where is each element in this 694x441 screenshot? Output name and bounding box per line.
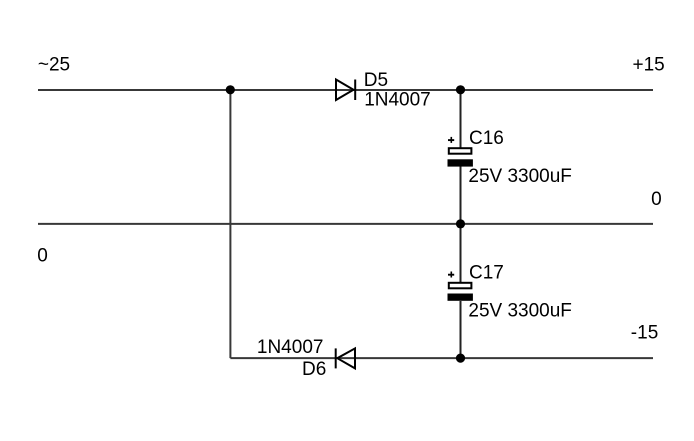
capacitor C16 bbox=[448, 137, 473, 167]
node junction: 0V rail bbox=[456, 219, 465, 228]
capacitor C17 bbox=[448, 272, 473, 301]
svg-text:C17: C17 bbox=[469, 263, 504, 284]
svg-text:C16: C16 bbox=[469, 128, 504, 149]
wire right vertical: top rail to C16 bbox=[460, 90, 462, 148]
diode D5 bbox=[336, 80, 355, 101]
wire bottom rail bbox=[230, 357, 653, 359]
wire right vertical: 0V rail to C17 bbox=[460, 224, 462, 282]
diode D6 bbox=[336, 348, 355, 368]
svg-text:-15: -15 bbox=[631, 323, 658, 344]
svg-text:25V 3300uF: 25V 3300uF bbox=[468, 300, 572, 321]
svg-text:0: 0 bbox=[651, 189, 662, 210]
svg-text:D6: D6 bbox=[302, 359, 326, 380]
svg-text:0: 0 bbox=[37, 246, 48, 267]
node junction: bottom rail bbox=[456, 354, 465, 363]
svg-text:~25: ~25 bbox=[38, 55, 70, 76]
svg-text:1N4007: 1N4007 bbox=[364, 90, 431, 111]
wire right vertical: C16 to 0V rail bbox=[460, 167, 462, 224]
wire left vertical branch bbox=[229, 90, 231, 358]
node junction: D5 cathode on top rail bbox=[456, 85, 465, 94]
node junction: left branch on top rail bbox=[226, 85, 235, 94]
wire top AC input rail bbox=[38, 89, 653, 91]
svg-text:1N4007: 1N4007 bbox=[257, 337, 324, 358]
svg-text:D5: D5 bbox=[364, 70, 388, 91]
wire middle 0V rail bbox=[38, 223, 653, 225]
svg-text:25V 3300uF: 25V 3300uF bbox=[468, 166, 572, 187]
svg-text:+15: +15 bbox=[633, 55, 665, 76]
wire right vertical: C17 to bottom rail bbox=[460, 301, 462, 358]
